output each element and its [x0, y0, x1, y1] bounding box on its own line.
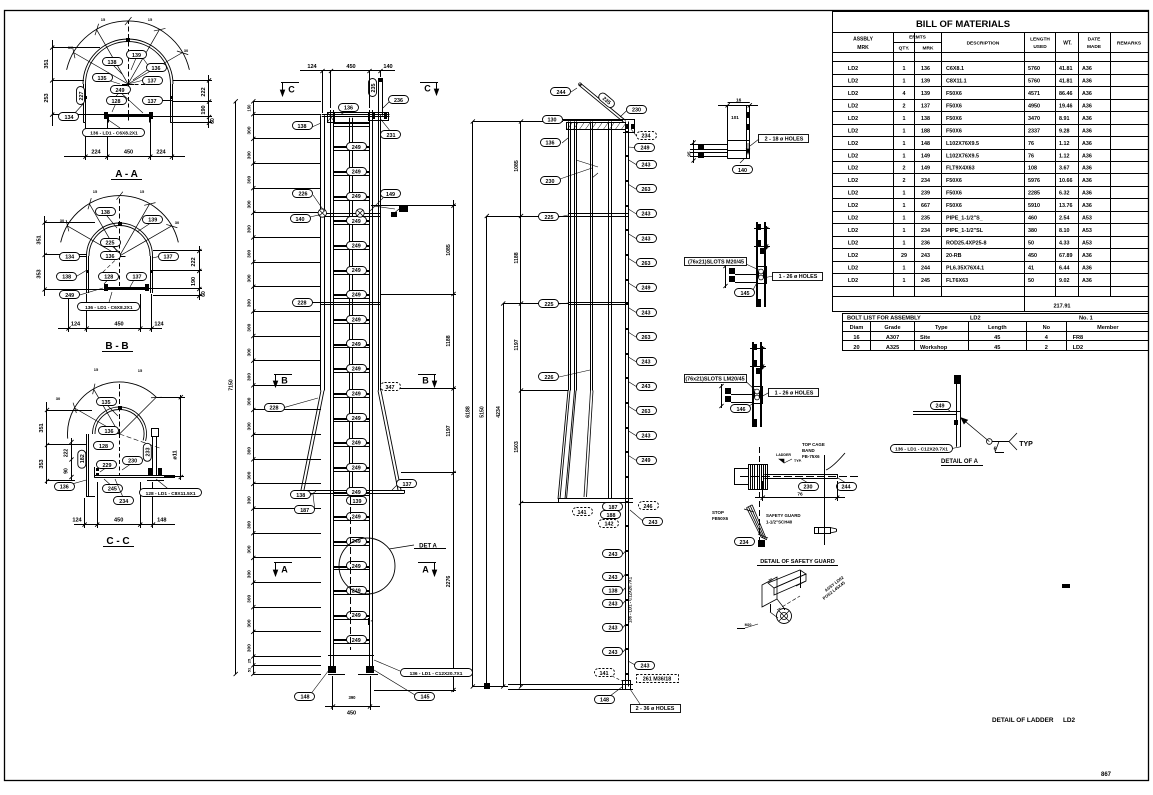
svg-text:300: 300 [247, 348, 253, 356]
svg-text:1: 1 [903, 228, 906, 234]
svg-text:TOP CAGE: TOP CAGE [802, 442, 825, 447]
svg-text:F50X6: F50X6 [946, 191, 962, 197]
svg-text:137: 137 [133, 275, 142, 281]
svg-text:1197: 1197 [514, 339, 520, 350]
svg-text:300: 300 [247, 397, 253, 405]
svg-text:A36: A36 [1082, 191, 1092, 197]
svg-text:249: 249 [352, 145, 361, 151]
svg-text:224: 224 [156, 150, 166, 156]
svg-text:A36: A36 [1082, 178, 1092, 184]
svg-text:243: 243 [642, 236, 651, 242]
svg-text:76: 76 [797, 491, 803, 497]
svg-text:136: 136 [152, 66, 161, 72]
svg-text:A - A: A - A [115, 169, 138, 180]
svg-text:138: 138 [921, 116, 930, 122]
svg-text:6.32: 6.32 [1059, 191, 1070, 197]
svg-text:300: 300 [247, 151, 253, 159]
svg-text:138: 138 [298, 124, 307, 130]
svg-text:124: 124 [154, 322, 164, 328]
svg-text:244: 244 [921, 265, 930, 271]
svg-text:30: 30 [56, 396, 61, 401]
svg-text:2285: 2285 [1028, 191, 1040, 197]
svg-text:139: 139 [148, 218, 157, 224]
svg-text:Workshop: Workshop [920, 345, 948, 351]
svg-text:5150: 5150 [480, 406, 486, 418]
svg-text:141: 141 [600, 671, 609, 677]
svg-text:249: 249 [352, 613, 361, 619]
svg-text:222: 222 [201, 87, 207, 96]
svg-text:No. 1: No. 1 [1079, 315, 1093, 321]
svg-text:226: 226 [299, 191, 308, 197]
svg-text:228: 228 [270, 406, 279, 412]
svg-text:MRK: MRK [923, 46, 934, 52]
svg-text:ROD25.4XP25-8: ROD25.4XP25-8 [946, 241, 986, 247]
svg-text:A36: A36 [1082, 79, 1092, 85]
svg-text:(76x21)SLOTS M20/45: (76x21)SLOTS M20/45 [688, 259, 744, 265]
svg-text:243: 243 [642, 310, 651, 316]
svg-text:4234: 4234 [496, 406, 502, 418]
svg-text:249: 249 [352, 367, 361, 373]
svg-text:16: 16 [853, 335, 859, 341]
svg-text:B: B [281, 376, 288, 386]
svg-text:300: 300 [247, 249, 253, 257]
svg-text:249: 249 [352, 293, 361, 299]
svg-text:134: 134 [65, 115, 74, 121]
svg-text:7150: 7150 [229, 379, 235, 391]
svg-text:3.67: 3.67 [1059, 166, 1070, 172]
svg-text:A53: A53 [1082, 241, 1092, 247]
svg-text:1 - 26 ø HOLES: 1 - 26 ø HOLES [779, 274, 818, 280]
svg-text:249: 249 [352, 219, 361, 225]
svg-text:STOP: STOP [712, 510, 724, 515]
svg-text:50: 50 [1028, 241, 1034, 247]
svg-text:261 M36/18: 261 M36/18 [643, 676, 671, 682]
svg-text:137: 137 [148, 99, 157, 105]
svg-text:A53: A53 [1082, 228, 1092, 234]
svg-text:101: 101 [731, 115, 739, 120]
svg-text:148: 148 [600, 697, 609, 703]
svg-text:139: 139 [921, 79, 930, 85]
svg-text:190: 190 [201, 105, 207, 114]
svg-text:138: 138 [62, 275, 71, 281]
svg-text:300: 300 [247, 644, 253, 652]
svg-text:230: 230 [632, 107, 641, 113]
svg-text:60: 60 [201, 291, 207, 297]
svg-text:249: 249 [352, 441, 361, 447]
svg-text:PL6.35X76X4.1: PL6.35X76X4.1 [946, 265, 984, 271]
svg-text:136: 136 [546, 140, 555, 146]
svg-text:136: 136 [60, 485, 69, 491]
svg-text:USED: USED [1033, 44, 1047, 50]
svg-text:300: 300 [247, 274, 253, 282]
svg-text:A36: A36 [1082, 265, 1092, 271]
svg-text:76: 76 [1028, 153, 1034, 159]
svg-text:LENGTH: LENGTH [1030, 37, 1050, 43]
svg-text:REMARKS: REMARKS [1117, 41, 1142, 47]
svg-text:243: 243 [641, 663, 650, 669]
svg-text:138: 138 [609, 588, 618, 594]
svg-text:142: 142 [605, 521, 614, 527]
svg-text:136: 136 [105, 429, 114, 435]
svg-text:249: 249 [352, 342, 361, 348]
svg-text:BAND: BAND [802, 448, 815, 453]
svg-text:2: 2 [1045, 345, 1048, 351]
svg-text:390: 390 [349, 695, 357, 700]
svg-text:246: 246 [644, 504, 653, 510]
svg-text:F50X6: F50X6 [946, 203, 962, 209]
svg-text:867: 867 [1101, 772, 1112, 778]
svg-text:244: 244 [842, 485, 851, 491]
svg-text:243: 243 [642, 360, 651, 366]
svg-text:C6X8.1: C6X8.1 [946, 66, 964, 72]
svg-text:145: 145 [741, 291, 750, 297]
svg-text:LD2: LD2 [848, 141, 858, 147]
svg-text:450: 450 [347, 711, 356, 717]
svg-text:15: 15 [140, 189, 145, 194]
svg-text:1 - 26 ø HOLES: 1 - 26 ø HOLES [775, 390, 814, 396]
svg-text:86.46: 86.46 [1059, 91, 1073, 97]
svg-text:F50X6: F50X6 [946, 128, 962, 134]
svg-text:300: 300 [247, 594, 253, 602]
svg-text:249: 249 [352, 564, 361, 570]
svg-text:A: A [281, 565, 288, 575]
svg-text:263: 263 [642, 261, 651, 267]
svg-text:LD2: LD2 [848, 228, 858, 234]
svg-text:1: 1 [903, 141, 906, 147]
svg-text:230: 230 [128, 459, 137, 465]
svg-text:4950: 4950 [1028, 103, 1040, 109]
svg-text:TYP.: TYP. [794, 459, 802, 463]
svg-text:300: 300 [247, 471, 253, 479]
svg-text:450: 450 [114, 322, 123, 328]
svg-text:1.12: 1.12 [1059, 153, 1070, 159]
svg-text:1: 1 [903, 278, 906, 284]
svg-text:45: 45 [994, 335, 1000, 341]
svg-text:2: 2 [903, 166, 906, 172]
svg-text:300: 300 [247, 323, 253, 331]
svg-text:A36: A36 [1082, 153, 1092, 159]
svg-text:300: 300 [247, 225, 253, 233]
svg-text:A36: A36 [1082, 253, 1092, 259]
svg-text:300: 300 [247, 126, 253, 134]
svg-text:124: 124 [72, 518, 82, 524]
svg-text:15: 15 [148, 17, 153, 22]
svg-text:148: 148 [301, 694, 310, 700]
svg-text:1-1/2"SCH40: 1-1/2"SCH40 [766, 520, 793, 525]
svg-text:243: 243 [642, 434, 651, 440]
svg-text:149: 149 [921, 153, 930, 159]
svg-text:300: 300 [247, 200, 253, 208]
svg-text:BILL OF MATERIALS: BILL OF MATERIALS [916, 19, 1010, 30]
svg-text:DETAIL OF SAFETY GUARD: DETAIL OF SAFETY GUARD [760, 559, 835, 565]
svg-text:41.81: 41.81 [1059, 66, 1073, 72]
svg-text:L102X76X9.5: L102X76X9.5 [946, 153, 979, 159]
svg-text:8.10: 8.10 [1059, 228, 1070, 234]
svg-text:19.46: 19.46 [1059, 103, 1073, 109]
svg-text:67.89: 67.89 [1059, 253, 1073, 259]
svg-text:6: 6 [994, 447, 997, 453]
svg-text:1503: 1503 [514, 441, 520, 453]
svg-text:243: 243 [642, 384, 651, 390]
svg-text:249: 249 [352, 416, 361, 422]
svg-text:351: 351 [37, 235, 43, 244]
svg-text:140: 140 [738, 168, 747, 174]
svg-text:41.81: 41.81 [1059, 79, 1073, 85]
svg-text:187: 187 [300, 508, 309, 514]
svg-text:139: 139 [921, 91, 930, 97]
svg-text:234: 234 [642, 133, 651, 139]
svg-text:60: 60 [210, 118, 216, 124]
svg-text:A36: A36 [1082, 103, 1092, 109]
svg-text:76: 76 [1028, 141, 1034, 147]
svg-text:128: 128 [99, 444, 108, 450]
svg-text:351: 351 [44, 59, 50, 68]
svg-text:1: 1 [903, 79, 906, 85]
svg-text:229: 229 [103, 463, 112, 469]
svg-text:2337: 2337 [1028, 128, 1040, 134]
svg-text:5760: 5760 [1028, 66, 1040, 72]
svg-text:13.76: 13.76 [1059, 203, 1073, 209]
svg-text:225: 225 [545, 215, 554, 221]
svg-text:29: 29 [901, 253, 907, 259]
svg-text:135: 135 [98, 76, 107, 82]
svg-text:LD2: LD2 [848, 265, 858, 271]
svg-text:FR8: FR8 [1073, 335, 1084, 341]
svg-text:227: 227 [79, 92, 85, 101]
svg-text:249: 249 [352, 465, 361, 471]
svg-text:4.33: 4.33 [1059, 241, 1070, 247]
svg-text:LD2: LD2 [848, 216, 858, 222]
svg-text:249: 249 [642, 286, 651, 292]
svg-text:1: 1 [903, 191, 906, 197]
svg-text:249: 249 [352, 170, 361, 176]
svg-text:2 - 18 ø HOLES: 2 - 18 ø HOLES [765, 137, 804, 143]
svg-text:136: 136 [344, 105, 353, 111]
svg-text:B - B: B - B [105, 341, 128, 352]
svg-text:LD2: LD2 [848, 203, 858, 209]
svg-text:90: 90 [64, 468, 70, 474]
svg-text:A36: A36 [1082, 116, 1092, 122]
svg-text:148: 148 [157, 518, 166, 524]
svg-text:50: 50 [1028, 278, 1034, 284]
svg-text:LADDER: LADDER [776, 453, 791, 457]
svg-text:230: 230 [804, 485, 813, 491]
svg-text:234: 234 [119, 499, 128, 505]
svg-text:1: 1 [903, 203, 906, 209]
svg-text:C: C [424, 84, 431, 94]
svg-text:5760: 5760 [1028, 79, 1040, 85]
svg-text:16: 16 [736, 98, 742, 104]
svg-text:235: 235 [371, 84, 377, 93]
svg-text:150: 150 [247, 104, 252, 112]
svg-text:F50X6: F50X6 [946, 178, 962, 184]
svg-text:F50X6: F50X6 [946, 91, 962, 97]
svg-text:347: 347 [386, 385, 395, 391]
svg-text:224: 224 [91, 150, 101, 156]
svg-text:239: 239 [921, 191, 930, 197]
svg-text:300: 300 [247, 175, 253, 183]
svg-text:FB-75X6: FB-75X6 [802, 454, 820, 459]
svg-text:B: B [422, 376, 429, 386]
svg-text:15: 15 [94, 367, 99, 372]
svg-text:236: 236 [921, 241, 930, 247]
svg-text:LD2: LD2 [848, 278, 858, 284]
svg-text:136 - LD1 - C12X20.7X1: 136 - LD1 - C12X20.7X1 [410, 671, 463, 677]
svg-text:5910: 5910 [1028, 203, 1040, 209]
svg-text:8.91: 8.91 [1059, 116, 1070, 122]
svg-text:15: 15 [93, 189, 98, 194]
svg-text:182: 182 [80, 454, 86, 463]
svg-text:249: 249 [352, 490, 361, 496]
svg-text:234: 234 [921, 228, 930, 234]
svg-text:300: 300 [247, 619, 253, 627]
svg-text:137: 137 [148, 78, 157, 84]
svg-text:249: 249 [352, 244, 361, 250]
svg-text:A36: A36 [1082, 166, 1092, 172]
svg-text:245: 245 [921, 278, 930, 284]
svg-text:6.44: 6.44 [1059, 265, 1070, 271]
svg-text:1: 1 [903, 66, 906, 72]
svg-text:SAFETY GUARD: SAFETY GUARD [766, 513, 801, 518]
svg-text:249: 249 [116, 88, 125, 94]
svg-text:236: 236 [394, 98, 403, 104]
svg-text:263: 263 [642, 187, 651, 193]
svg-text:(76x21)SLOTS LM20/45: (76x21)SLOTS LM20/45 [685, 376, 744, 382]
svg-text:243: 243 [609, 575, 618, 581]
svg-text:243: 243 [642, 212, 651, 218]
svg-text:249: 249 [642, 458, 651, 464]
svg-text:135: 135 [102, 400, 111, 406]
svg-text:300: 300 [247, 496, 253, 504]
svg-text:L102X76X9.5: L102X76X9.5 [946, 141, 979, 147]
svg-text:9.02: 9.02 [1059, 278, 1070, 284]
svg-text:MADE: MADE [1087, 44, 1102, 50]
svg-text:ø11: ø11 [173, 450, 179, 459]
svg-text:460: 460 [1028, 216, 1037, 222]
svg-text:243: 243 [649, 520, 658, 526]
svg-text:253: 253 [44, 93, 50, 102]
svg-text:LD2: LD2 [848, 66, 858, 72]
svg-text:LD2: LD2 [1073, 345, 1084, 351]
svg-text:137: 137 [403, 482, 412, 488]
svg-text:95: 95 [687, 151, 692, 157]
svg-text:243: 243 [609, 552, 618, 558]
svg-text:15: 15 [101, 17, 106, 22]
svg-text:Length: Length [988, 325, 1007, 331]
svg-text:2 - 36 ø HOLES: 2 - 36 ø HOLES [636, 706, 675, 712]
svg-text:Site: Site [920, 335, 930, 341]
svg-text:30: 30 [175, 220, 180, 225]
svg-text:222: 222 [64, 449, 70, 458]
svg-text:A36: A36 [1082, 278, 1092, 284]
svg-text:6188: 6188 [466, 406, 472, 418]
svg-text:136 - LD1 - C6X8.2X1: 136 - LD1 - C6X8.2X1 [90, 130, 138, 136]
svg-text:LD2: LD2 [848, 191, 858, 197]
svg-text:136 - LD1 - C12X20.7X1: 136 - LD1 - C12X20.7X1 [895, 446, 948, 452]
svg-text:A36: A36 [1082, 91, 1092, 97]
svg-text:A36: A36 [1082, 66, 1092, 72]
svg-text:138: 138 [101, 210, 110, 216]
svg-text:130: 130 [548, 117, 557, 123]
svg-text:300: 300 [247, 422, 253, 430]
svg-text:LD2: LD2 [848, 116, 858, 122]
svg-text:15: 15 [138, 368, 143, 373]
svg-text:C - C: C - C [106, 536, 129, 547]
svg-text:300: 300 [247, 570, 253, 578]
svg-text:1: 1 [903, 241, 906, 247]
svg-text:141: 141 [578, 510, 587, 516]
svg-text:190: 190 [191, 277, 197, 286]
svg-text:PIPE_1-1/2"SL: PIPE_1-1/2"SL [946, 228, 984, 234]
svg-text:LD2: LD2 [970, 315, 981, 321]
svg-text:136: 136 [106, 254, 115, 260]
svg-text:188: 188 [607, 513, 616, 519]
svg-text:2: 2 [903, 178, 906, 184]
svg-text:BOLT LIST FOR ASSEMBLY: BOLT LIST FOR ASSEMBLY [847, 315, 921, 321]
svg-text:222: 222 [191, 257, 197, 266]
svg-text:3470: 3470 [1028, 116, 1040, 122]
svg-text:128: 128 [112, 99, 121, 105]
svg-text:243: 243 [609, 650, 618, 656]
svg-text:A307: A307 [886, 335, 899, 341]
svg-text:DETAIL OF A: DETAIL OF A [941, 459, 979, 465]
svg-text:1085: 1085 [446, 244, 452, 256]
svg-text:LD2: LD2 [1063, 717, 1076, 724]
svg-text:A36: A36 [1082, 128, 1092, 134]
svg-text:225: 225 [545, 302, 554, 308]
svg-text:1: 1 [903, 116, 906, 122]
svg-text:2.54: 2.54 [1059, 216, 1070, 222]
svg-text:667: 667 [921, 203, 930, 209]
svg-text:136 - LD1 - C6X8.2X1: 136 - LD1 - C6X8.2X1 [85, 305, 133, 311]
svg-text:145: 145 [421, 694, 430, 700]
svg-text:45: 45 [994, 345, 1000, 351]
svg-text:134: 134 [65, 255, 74, 261]
svg-text:450: 450 [124, 150, 133, 156]
svg-text:FLT9X4X63: FLT9X4X63 [946, 166, 975, 172]
svg-text:249: 249 [65, 293, 74, 299]
svg-text:A36: A36 [1082, 203, 1092, 209]
svg-text:LD2: LD2 [848, 79, 858, 85]
svg-text:128 - LD1 - C8X11.5X1: 128 - LD1 - C8X11.5X1 [146, 491, 196, 497]
svg-text:1: 1 [903, 153, 906, 159]
svg-text:2: 2 [903, 103, 906, 109]
svg-text:LD2: LD2 [848, 91, 858, 97]
svg-text:1188: 1188 [446, 335, 452, 346]
svg-text:234: 234 [921, 178, 930, 184]
svg-text:10.66: 10.66 [1059, 178, 1073, 184]
svg-text:249: 249 [352, 194, 361, 200]
svg-text:4571: 4571 [1028, 91, 1040, 97]
svg-text:DATE: DATE [1088, 37, 1102, 43]
svg-text:263: 263 [642, 335, 651, 341]
svg-text:148: 148 [921, 141, 930, 147]
svg-text:20: 20 [853, 345, 859, 351]
svg-text:300: 300 [247, 299, 253, 307]
svg-text:Type: Type [935, 325, 948, 331]
svg-text:1188: 1188 [514, 252, 520, 263]
svg-text:FLT6X63: FLT6X63 [946, 278, 968, 284]
svg-text:9.28: 9.28 [1059, 128, 1070, 134]
svg-text:353: 353 [39, 459, 45, 468]
svg-text:244: 244 [557, 90, 566, 96]
svg-text:1197: 1197 [446, 425, 452, 436]
svg-text:C: C [288, 85, 295, 95]
svg-text:187: 187 [609, 505, 618, 511]
svg-text:139: 139 [353, 499, 362, 505]
svg-text:1: 1 [903, 265, 906, 271]
svg-text:WT.: WT. [1063, 41, 1072, 47]
